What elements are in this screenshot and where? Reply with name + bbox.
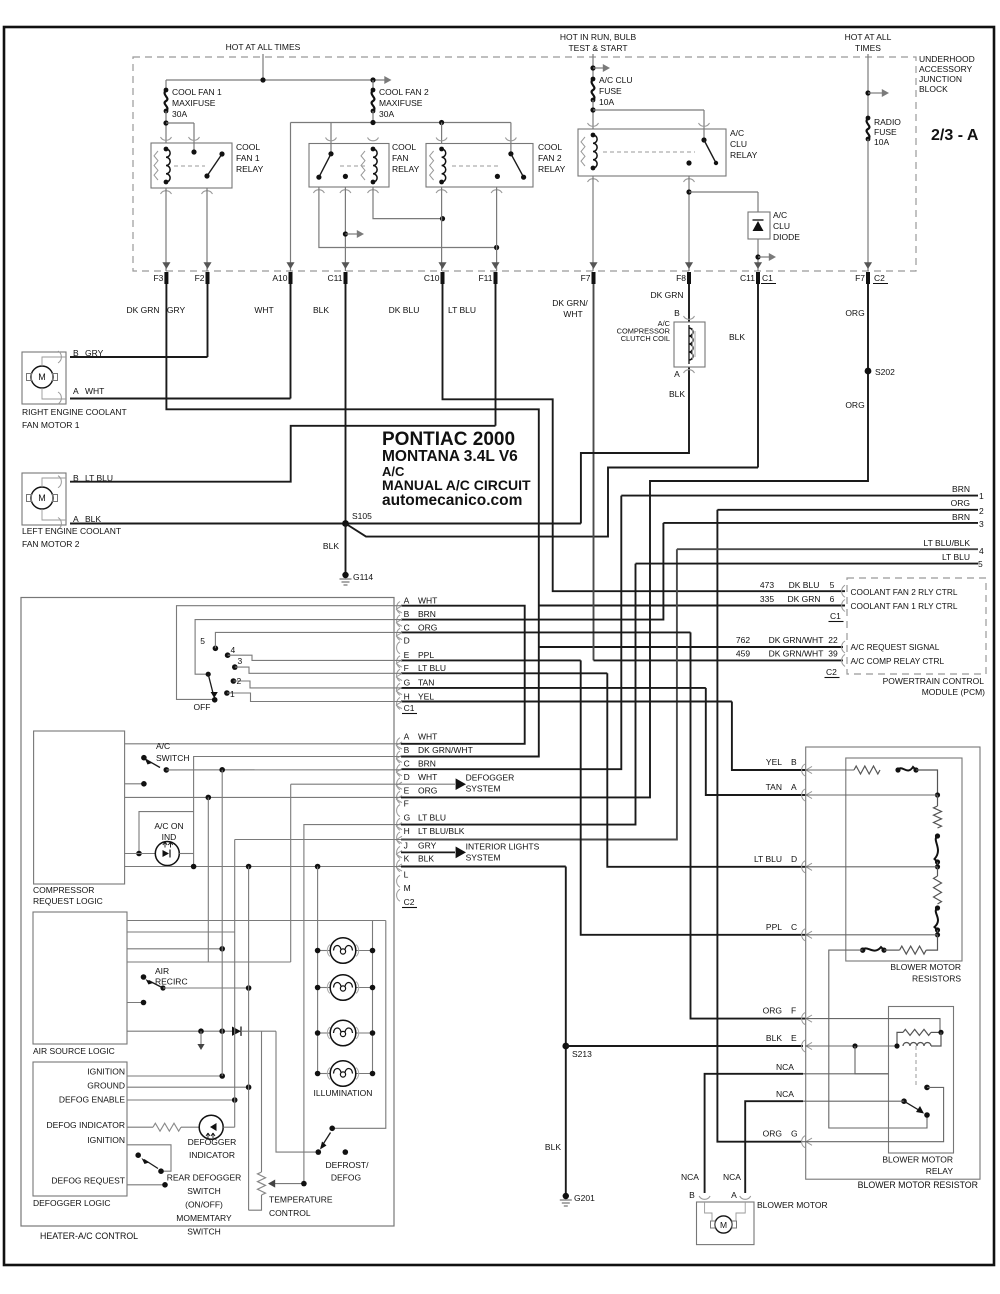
svg-text:A: A (731, 1190, 737, 1200)
svg-text:A/C: A/C (156, 741, 170, 751)
wire relay2 coil to C10 line (373, 187, 443, 219)
wire WHT C1-A to C2-A loop (401, 606, 525, 744)
TEMPERATURE CONTROL potentiometer (258, 1172, 266, 1195)
fuse COOL FAN 2 MAXIFUSE 30A (372, 90, 375, 111)
svg-text:LT BLU: LT BLU (418, 663, 446, 673)
wire WHT motor1-A to A10 (70, 398, 291, 400)
svg-text:INDICATOR: INDICATOR (189, 1150, 235, 1160)
blower relay coil (903, 1043, 931, 1047)
svg-text:F: F (404, 663, 409, 673)
svg-text:F11: F11 (478, 273, 492, 283)
svg-text:459: 459 (736, 649, 750, 659)
wire to A10 (290, 123, 292, 272)
relay K4 dashed link (603, 151, 695, 153)
wire WHT C2-D row to defogger arrow (291, 783, 455, 785)
svg-text:C11: C11 (328, 273, 343, 283)
svg-text:4: 4 (979, 546, 984, 556)
wire BRN pin3 riser to C1-B (401, 523, 663, 620)
wire DK GRN 335 row to PCM pin6 (539, 605, 845, 607)
svg-text:AIR SOURCE LOGIC: AIR SOURCE LOGIC (33, 1046, 115, 1056)
svg-text:2: 2 (979, 506, 984, 516)
svg-text:A: A (73, 514, 79, 524)
svg-text:TEMPERATURE: TEMPERATURE (269, 1195, 333, 1205)
svg-text:FAN: FAN (392, 153, 409, 163)
svg-text:AIR: AIR (155, 966, 169, 976)
svg-text:3: 3 (238, 656, 243, 666)
svg-text:335: 335 (760, 594, 774, 604)
connector pin F11 x=495.5 (491, 262, 499, 269)
svg-text:B: B (689, 1190, 695, 1200)
svg-text:UNDERHOOD: UNDERHOOD (919, 54, 975, 64)
wire PPL C into resistors (805, 934, 938, 936)
svg-text:TEST & START: TEST & START (568, 43, 627, 53)
svg-text:WHT: WHT (254, 305, 273, 315)
wire YEL B into resistors (805, 769, 854, 771)
blower motor internal wire B (705, 1202, 712, 1221)
svg-text:DEFROST/: DEFROST/ (326, 1160, 370, 1170)
HEATER-A/C CONTROL outer box (21, 598, 394, 1227)
wire hot feed to radio fuse (867, 54, 869, 118)
svg-text:C: C (404, 622, 410, 632)
svg-text:5: 5 (200, 636, 205, 646)
wire recirc pivot to ground riser (163, 987, 249, 989)
svg-text:POWERTRAIN CONTROL: POWERTRAIN CONTROL (883, 676, 985, 686)
svg-text:A: A (404, 596, 410, 606)
relay K2 COOL FAN RELAY box (309, 144, 389, 188)
relay K4 coil (593, 135, 597, 168)
fuse COOL FAN 1 MAXIFUSE 30A (165, 90, 168, 111)
svg-text:BLK: BLK (85, 514, 101, 524)
wire DK GRN/WHT F7 down (593, 284, 595, 660)
relay K2 coil (373, 149, 377, 182)
wire GRY motor1-B to F2 (70, 356, 208, 358)
wire diode to C11 (757, 239, 759, 271)
svg-text:CLU: CLU (773, 221, 790, 231)
wire YEL riser to blower YEL B (732, 702, 805, 771)
svg-text:BLK: BLK (669, 389, 685, 399)
wire C2-H row inside control head (235, 839, 401, 841)
svg-text:DK BLU: DK BLU (789, 580, 820, 590)
svg-text:A/C CLU: A/C CLU (599, 75, 633, 85)
wire illumination left riser (317, 867, 319, 1074)
svg-text:A/C: A/C (773, 210, 787, 220)
svg-text:3: 3 (979, 519, 984, 529)
svg-text:MAXIFUSE: MAXIFUSE (172, 98, 216, 108)
mode switch contact 1 (224, 690, 230, 696)
svg-text:DEFOG: DEFOG (331, 1173, 361, 1183)
wire LT BLU motor2-B to F11 (70, 426, 496, 482)
relay K1 dashed link (174, 165, 205, 167)
svg-text:M: M (38, 372, 46, 382)
svg-text:WHT: WHT (418, 772, 437, 782)
relay K2 switch (330, 144, 332, 154)
svg-text:BLOWER MOTOR: BLOWER MOTOR (882, 1155, 953, 1165)
svg-text:REAR DEFOGGER: REAR DEFOGGER (167, 1173, 242, 1183)
svg-text:FAN MOTOR 1: FAN MOTOR 1 (22, 420, 80, 430)
svg-text:10A: 10A (599, 97, 614, 107)
svg-text:JUNCTION: JUNCTION (919, 74, 962, 84)
svg-text:473: 473 (760, 580, 774, 590)
wire hot in run drop (592, 54, 594, 79)
svg-text:LT BLU: LT BLU (942, 552, 970, 562)
wire C2-A row to compressor logic (125, 743, 401, 745)
mode switch contact 5 (213, 646, 219, 652)
wire YEL C1-H row east (401, 701, 732, 703)
fuse RADIO FUSE 10A (867, 118, 870, 139)
svg-text:K: K (404, 854, 410, 864)
wire air source row4 (127, 961, 291, 963)
svg-text:MODULE (PCM): MODULE (PCM) (922, 687, 985, 697)
svg-text:DEFOG ENABLE: DEFOG ENABLE (59, 1095, 125, 1105)
wire TAN riser to blower TAN A (706, 688, 805, 795)
svg-text:G: G (404, 812, 411, 822)
svg-text:FAN 2: FAN 2 (538, 153, 562, 163)
svg-text:L: L (404, 869, 409, 879)
svg-text:GRY: GRY (418, 840, 437, 850)
svg-text:D: D (404, 636, 410, 646)
wire relay4 switch to F8 (688, 176, 690, 271)
wire fuse2 distribution bus (291, 122, 511, 124)
svg-text:A: A (404, 732, 410, 742)
svg-text:COMPRESSOR: COMPRESSOR (33, 885, 94, 895)
DEFROST/DEFOG switch (329, 1126, 335, 1132)
wire ORG F into resistor module (805, 1019, 940, 1033)
connector pin C11 x=345.5 (341, 262, 349, 269)
svg-text:S213: S213 (572, 1049, 592, 1059)
svg-text:22: 22 (828, 635, 838, 645)
svg-text:ORG: ORG (418, 622, 437, 632)
DEFOGGER LOGIC box (33, 1062, 127, 1196)
wire air source row5 with diode (127, 1030, 232, 1032)
blower motor M circle (715, 1216, 732, 1233)
svg-text:J: J (404, 840, 408, 850)
svg-text:ILLUMINATION: ILLUMINATION (314, 1088, 373, 1098)
svg-text:E: E (404, 650, 410, 660)
AIR SOURCE LOGIC box (33, 912, 127, 1044)
svg-text:LT BLU: LT BLU (448, 305, 476, 315)
svg-text:C2: C2 (874, 273, 885, 283)
svg-text:G: G (791, 1129, 798, 1139)
svg-text:A/C COMP RELAY CTRL: A/C COMP RELAY CTRL (851, 656, 945, 666)
svg-text:1: 1 (230, 689, 235, 699)
svg-text:E: E (791, 1033, 797, 1043)
wire branch to clutch diode (689, 191, 758, 193)
svg-text:HEATER-A/C CONTROL: HEATER-A/C CONTROL (40, 1231, 138, 1241)
svg-text:(ON/OFF): (ON/OFF) (185, 1200, 223, 1210)
wire mode switch bracket from C1-A (177, 606, 402, 700)
relay K1 COOL FAN 1 RELAY box (151, 143, 232, 188)
node arrow tap (865, 90, 870, 95)
svg-text:DK GRN: DK GRN (126, 305, 159, 315)
wire DK GRN F8 to clutch coil B (688, 284, 690, 322)
wire BLK S105 to G114 (345, 524, 347, 573)
relay K1 switch (193, 143, 195, 152)
svg-text:F7: F7 (855, 273, 865, 283)
wire NCA1 inside box (803, 1073, 889, 1075)
connector pin F8 x=689 (685, 262, 693, 269)
wire TAN C1-G row east (401, 687, 706, 689)
svg-text:WHT: WHT (563, 309, 582, 319)
wire defog request row (127, 1184, 165, 1186)
svg-text:WHT: WHT (418, 732, 437, 742)
svg-text:LT BLU: LT BLU (418, 812, 446, 822)
BLOWER MOTOR RESISTOR outer box (806, 747, 980, 1179)
svg-text:SWITCH: SWITCH (187, 1186, 221, 1196)
svg-text:A10: A10 (272, 273, 287, 283)
svg-text:OFF: OFF (194, 702, 211, 712)
wire BRN pin1 riser to C2-C (401, 496, 621, 770)
PCM dashed box POWERTRAIN CONTROL MODULE (847, 578, 986, 674)
svg-text:COOL: COOL (236, 142, 260, 152)
svg-text:F2: F2 (195, 273, 205, 283)
svg-text:HOT AT ALL: HOT AT ALL (845, 32, 892, 42)
wire ORG C1-C row east (401, 631, 691, 633)
svg-text:BRN: BRN (418, 609, 436, 619)
svg-text:5: 5 (830, 580, 835, 590)
svg-text:M: M (404, 883, 411, 893)
wire A/C switch lower contact stub (125, 783, 144, 785)
svg-text:F: F (791, 1006, 796, 1016)
wire to maxifuse 2 (372, 80, 374, 90)
mode switch contact 4 (225, 652, 231, 658)
wire indicator right to riser (179, 853, 193, 855)
illumination bulb at y=1033 (318, 1032, 331, 1034)
wire mode switch feed from C1-B (195, 620, 401, 675)
svg-text:LT BLU/BLK: LT BLU/BLK (418, 826, 465, 836)
node BRN riser top (219, 767, 225, 773)
svg-text:BLOWER MOTOR: BLOWER MOTOR (757, 1200, 828, 1210)
wire LT BLU riser to blower LT BLU D (607, 673, 805, 867)
svg-text:DK GRN/WHT: DK GRN/WHT (769, 635, 824, 645)
svg-text:RIGHT ENGINE COOLANT: RIGHT ENGINE COOLANT (22, 407, 127, 417)
connector pin A10 x=290.5 (286, 262, 294, 269)
svg-text:M: M (38, 493, 46, 503)
wire LT BLU/BLK PCM pin4 row (677, 548, 978, 550)
svg-text:A/C: A/C (730, 128, 744, 138)
BLOWER MOTOR RELAY box (889, 1007, 954, 1154)
svg-text:BLOCK: BLOCK (919, 84, 948, 94)
svg-text:BRN: BRN (952, 512, 970, 522)
connector pin F7 x=593.5 (589, 262, 597, 269)
svg-text:RADIO: RADIO (874, 117, 901, 127)
svg-text:HOT IN RUN, BULB: HOT IN RUN, BULB (560, 32, 637, 42)
svg-text:RELAY: RELAY (392, 164, 420, 174)
wire defog enable row (127, 1099, 235, 1101)
fuse A/C CLU FUSE 10A (592, 79, 595, 100)
node arrow tap (343, 231, 348, 236)
svg-text:PONTIAC 2000: PONTIAC 2000 (382, 429, 515, 450)
svg-text:E: E (404, 785, 410, 795)
wire top bus (166, 79, 386, 81)
svg-text:RELAY: RELAY (730, 150, 758, 160)
motor RIGHT ENGINE COOLANT FAN MOTOR 1 (22, 352, 66, 404)
contact OFF (212, 697, 218, 703)
svg-text:39: 39 (828, 649, 838, 659)
wire ignition row (127, 1075, 222, 1077)
wire ORG pin2 riser to blower ORG G (717, 510, 802, 1142)
svg-text:LEFT ENGINE COOLANT: LEFT ENGINE COOLANT (22, 526, 121, 536)
svg-text:BRN: BRN (952, 484, 970, 494)
splice S202 (865, 368, 872, 375)
svg-text:F: F (404, 799, 409, 809)
svg-text:COOL: COOL (538, 142, 562, 152)
svg-text:IGNITION: IGNITION (87, 1135, 125, 1145)
svg-text:MANUAL A/C CIRCUIT: MANUAL A/C CIRCUIT (382, 477, 531, 493)
wire GRY C2-J to interior lights arrow (401, 851, 455, 853)
blower motor internal wire A (736, 1202, 745, 1221)
node bus junction (260, 77, 265, 82)
relay K2 dashed link (340, 165, 365, 167)
underhood accessory junction block dashed box (133, 57, 916, 271)
wire to maxifuse 1 (165, 80, 167, 90)
svg-text:ORG: ORG (845, 308, 864, 318)
wire relay1 switch to F2 (206, 188, 208, 271)
svg-text:DK GRN/WHT: DK GRN/WHT (418, 745, 473, 755)
wire DK GRN F3 to C2-B (166, 284, 538, 757)
svg-text:MAXIFUSE: MAXIFUSE (379, 98, 423, 108)
hanging arrow below row5 (200, 1031, 202, 1044)
svg-text:YEL: YEL (418, 691, 434, 701)
blower relay coil resistor (903, 1029, 931, 1035)
svg-text:DEFOG REQUEST: DEFOG REQUEST (51, 1176, 125, 1186)
wire relay4 coil to F7 (592, 176, 594, 271)
svg-text:REQUEST LOGIC: REQUEST LOGIC (33, 896, 103, 906)
wire ORG PCM pin2 row (717, 509, 978, 511)
wire to defrost/defog pivot (276, 1031, 318, 1152)
node fuse1 out (163, 120, 168, 125)
wire NCA2 to relay common (803, 1100, 904, 1102)
svg-text:D: D (791, 854, 797, 864)
svg-text:WHT: WHT (85, 386, 104, 396)
motor LEFT ENGINE COOLANT FAN MOTOR 2 (22, 473, 66, 525)
wire relay2-87 to F11 line (319, 187, 497, 248)
wire air source row2 (127, 931, 235, 933)
svg-text:BLK: BLK (313, 305, 329, 315)
connector pin C10 x=442.5 (438, 262, 446, 269)
wire BLK S213 to blower BLK E (566, 1045, 803, 1047)
wire pot top riser (261, 1031, 263, 1172)
A/C ON indicator lamp (155, 842, 179, 866)
limiter 2 (935, 836, 938, 862)
rear defogger switch (158, 1168, 164, 1174)
svg-text:DEFOGGER: DEFOGGER (188, 1137, 237, 1147)
wire indicator feed jog (139, 812, 194, 854)
resistor R1 (934, 806, 942, 828)
wire radio fuse to C2 pin (867, 139, 869, 271)
relay K4 A/C CLU RELAY box (578, 129, 726, 176)
relay K3 dashed link (452, 165, 500, 167)
blower relay switch (901, 1098, 907, 1104)
svg-text:A: A (674, 369, 680, 379)
pot wiper arrow (270, 1183, 304, 1185)
svg-text:MOMEMTARY: MOMEMTARY (176, 1213, 232, 1223)
blower motor box (697, 1202, 755, 1245)
svg-text:DK BLU: DK BLU (389, 305, 420, 315)
wire recirc lower contact (127, 1002, 144, 1004)
wire coil to NCA1 row (855, 1046, 889, 1074)
svg-text:COOL FAN 2: COOL FAN 2 (379, 87, 429, 97)
illumination bulb at y=950.5 (318, 950, 331, 952)
svg-text:C1: C1 (404, 703, 415, 713)
defogger indicator lamp (199, 1115, 223, 1139)
wire LT BLU riser C2-G to temperature control (304, 825, 401, 1184)
ground G201 (563, 1193, 569, 1199)
wire to relay2 switch (330, 123, 332, 144)
svg-text:DEFOG INDICATOR: DEFOG INDICATOR (46, 1120, 125, 1130)
relay K3 COOL FAN 2 RELAY box (426, 144, 533, 188)
svg-text:COOLANT FAN 1 RLY CTRL: COOLANT FAN 1 RLY CTRL (851, 601, 958, 611)
svg-text:S202: S202 (875, 367, 895, 377)
COMPRESSOR REQUEST LOGIC box (34, 731, 125, 884)
resistor defog indicator (153, 1123, 181, 1131)
svg-text:H: H (404, 691, 410, 701)
BLOWER MOTOR RESISTORS inner box (846, 758, 962, 961)
svg-text:S105: S105 (352, 511, 372, 521)
relay K4 switch (703, 129, 705, 140)
svg-text:YEL: YEL (766, 757, 782, 767)
splice S105 (342, 520, 349, 527)
svg-text:SWITCH: SWITCH (187, 1227, 221, 1237)
svg-text:C: C (791, 922, 797, 932)
svg-text:762: 762 (736, 635, 750, 645)
wire PPL C1-E row east (401, 659, 581, 661)
wire to relay3 switch (510, 123, 512, 144)
wire ORG riser to blower ORG F (691, 632, 806, 1018)
wire air source row3 (127, 948, 222, 950)
svg-text:C2: C2 (404, 897, 415, 907)
node arrow tap (590, 65, 595, 70)
wire row1 riser to defrost/defog (332, 921, 386, 1129)
wire PPL riser to blower PPL C (581, 660, 805, 934)
svg-text:B: B (674, 308, 680, 318)
svg-text:RESISTORS: RESISTORS (912, 974, 961, 984)
svg-text:DIODE: DIODE (773, 232, 800, 242)
wire LT BLU PCM pin5 row (636, 563, 979, 565)
wire WHT riser C2-D to air source row4 (290, 784, 292, 962)
svg-text:H: H (404, 826, 410, 836)
svg-text:IND: IND (162, 832, 177, 842)
wire DK GRN/WHT 762 row to PCM pin22 (539, 646, 843, 648)
svg-text:B: B (404, 609, 410, 619)
wire indicator right (223, 1126, 235, 1128)
svg-text:RELAY: RELAY (236, 164, 264, 174)
svg-text:10A: 10A (874, 137, 889, 147)
wire BLK C11 down to S105 (345, 284, 347, 524)
svg-text:INTERIOR LIGHTS: INTERIOR LIGHTS (466, 842, 540, 852)
svg-text:TAN: TAN (418, 677, 434, 687)
wire BLK riser to S213/G201 (565, 867, 567, 1194)
svg-text:30A: 30A (379, 109, 394, 119)
svg-text:BLK: BLK (418, 854, 434, 864)
relay K3 switch (510, 144, 512, 154)
svg-text:FAN 1: FAN 1 (236, 153, 260, 163)
wire relay2-30 to C11 (344, 187, 346, 271)
svg-text:C2: C2 (826, 667, 837, 677)
svg-text:CONTROL: CONTROL (269, 1208, 311, 1218)
wire C2-B riser to A/C ON indicator (194, 757, 401, 867)
svg-text:C10: C10 (424, 273, 440, 283)
svg-text:IGNITION: IGNITION (87, 1067, 125, 1077)
node fuse out (590, 107, 595, 112)
mode switch contact 2 (231, 678, 237, 684)
wire NCA relay common to motor pin A (745, 1101, 803, 1193)
connector pin F3 x=166.4 (162, 262, 170, 269)
wire illumination right riser (372, 921, 374, 1074)
node mode switch pivot (206, 672, 211, 677)
svg-text:COOLANT FAN 2 RLY CTRL: COOLANT FAN 2 RLY CTRL (851, 587, 958, 597)
svg-text:ORG: ORG (763, 1006, 782, 1016)
wire BRN PCM pin3 row (663, 522, 978, 524)
